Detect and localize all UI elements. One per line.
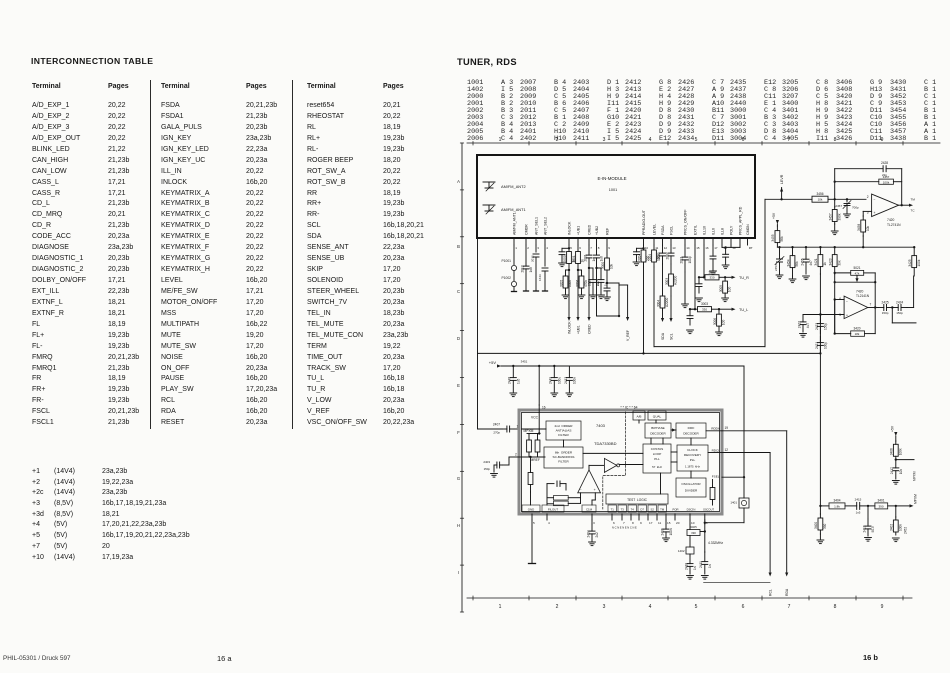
svg-text:6: 6 xyxy=(742,137,745,143)
svg-text:8: 8 xyxy=(834,604,837,610)
svg-text:+5V: +5V xyxy=(489,360,497,365)
svg-text:LOOP: LOOP xyxy=(653,452,662,456)
svg-text:5: 5 xyxy=(695,604,698,610)
svg-text:4: 4 xyxy=(649,137,652,143)
svg-text:3455: 3455 xyxy=(771,234,775,241)
capacitor C2448 xyxy=(512,365,514,367)
svg-text:3004: 3004 xyxy=(656,300,660,307)
svg-text:17: 17 xyxy=(649,521,653,525)
svg-text:3003: 3003 xyxy=(701,302,708,306)
resistor R2000 on INLOCK xyxy=(562,247,569,249)
svg-text:1401: 1401 xyxy=(730,501,737,505)
svg-text:2424: 2424 xyxy=(896,300,903,304)
svg-text:H: H xyxy=(457,523,460,528)
svg-text:9: 9 xyxy=(881,604,884,610)
wire ILL10 pin16 to TU_R row xyxy=(703,245,705,277)
svg-text:GND: GND xyxy=(528,507,534,511)
wire feedback lower xyxy=(835,281,876,283)
resistor R2013 xyxy=(535,245,537,252)
svg-text:INLOCK: INLOCK xyxy=(568,321,572,334)
svg-text:AM/FM_ANT1: AM/FM_ANT1 xyxy=(501,207,526,212)
svg-text:3402: 3402 xyxy=(890,524,894,531)
svg-text:2416: 2416 xyxy=(862,525,866,532)
svg-text:1: 1 xyxy=(517,425,519,429)
svg-text:390: 390 xyxy=(878,504,883,508)
svg-text:MPXM: MPXM xyxy=(913,471,917,481)
svg-text:DECODER: DECODER xyxy=(650,432,666,436)
trimmer capacitor C2454 xyxy=(778,246,780,248)
svg-text:LEVEL: LEVEL xyxy=(652,224,656,235)
svg-text:MREF: MREF xyxy=(531,458,540,462)
svg-text:SC-BANDPASS: SC-BANDPASS xyxy=(553,455,575,459)
svg-text:19: 19 xyxy=(732,246,736,250)
capacitor C2424 150p xyxy=(892,307,898,309)
resistor R3420 18k feedback xyxy=(834,300,836,334)
svg-text:3003: 3003 xyxy=(665,278,669,285)
capacitor C2005b on FSDA xyxy=(662,245,664,253)
capacitor C2011 xyxy=(684,245,686,257)
node pin5 xyxy=(568,247,570,249)
resistor R3004 in SDA line xyxy=(662,264,664,294)
svg-text:ILL10: ILL10 xyxy=(702,226,706,235)
svg-text:150p: 150p xyxy=(823,323,827,330)
svg-text:700p: 700p xyxy=(852,205,859,209)
svg-text:EXTIL: EXTIL xyxy=(693,225,697,235)
svg-text:3000: 3000 xyxy=(601,262,605,269)
svg-text:9: 9 xyxy=(640,521,642,525)
svg-text:9: 9 xyxy=(608,246,610,250)
svg-text:3425: 3425 xyxy=(908,259,912,266)
svg-text:6: 6 xyxy=(742,604,745,610)
svg-text:3206: 3206 xyxy=(575,280,579,287)
svg-text:OSCILLATOR: OSCILLATOR xyxy=(681,482,701,486)
svg-text:2449: 2449 xyxy=(549,377,553,384)
svg-text:G: G xyxy=(457,476,460,481)
svg-text:2448: 2448 xyxy=(508,377,512,384)
svg-text:2007: 2007 xyxy=(665,252,669,259)
svg-text:−: − xyxy=(580,488,582,492)
svg-text:LEVR: LEVR xyxy=(780,174,784,184)
test point P1002 xyxy=(513,271,515,281)
svg-text:T1: T1 xyxy=(611,507,615,511)
svg-text:TL2741N: TL2741N xyxy=(887,223,901,227)
svg-text:5: 5 xyxy=(533,521,535,525)
svg-text:4: 4 xyxy=(546,246,548,250)
svg-text:CLOCK: CLOCK xyxy=(687,448,699,452)
svg-text:8: 8 xyxy=(632,521,634,525)
svg-text:16: 16 xyxy=(542,406,546,410)
wire ground rail xyxy=(704,581,771,583)
svg-text:3454: 3454 xyxy=(786,259,790,266)
capacitor C2002 xyxy=(544,245,546,266)
block diff decoder xyxy=(676,423,706,438)
svg-text:15: 15 xyxy=(696,246,700,250)
svg-text:7: 7 xyxy=(590,246,592,250)
svg-text:FILTER: FILTER xyxy=(558,460,569,464)
GND pin wire xyxy=(531,520,533,563)
svg-text:1u8: 1u8 xyxy=(600,256,604,262)
svg-text:390: 390 xyxy=(823,523,827,529)
svg-text:TC: TC xyxy=(911,209,916,213)
svg-text:7420: 7420 xyxy=(887,218,895,222)
svg-text:I: I xyxy=(458,570,459,575)
svg-text:1: 1 xyxy=(515,246,517,250)
svg-text:150p: 150p xyxy=(484,467,491,471)
IC U7403 TDA7330BD body xyxy=(519,410,722,514)
resistor R3421 in MPX feed xyxy=(819,246,821,248)
block biphase decoder xyxy=(645,423,671,438)
wire bandpass to costas xyxy=(583,452,643,454)
svg-text:150p: 150p xyxy=(882,311,889,315)
capacitor C2415 series xyxy=(856,502,858,509)
svg-text:3457: 3457 xyxy=(829,213,833,220)
resistor R3406 100k xyxy=(895,441,897,444)
svg-text:7: 7 xyxy=(623,521,625,525)
svg-text:14: 14 xyxy=(686,246,690,250)
svg-text:FSCL: FSCL xyxy=(669,226,673,235)
svg-text:DIVIDER: DIVIDER xyxy=(685,489,698,493)
svg-text:MPXM: MPXM xyxy=(914,494,918,504)
block clock recovery PLL xyxy=(677,445,708,471)
svg-text:3001: 3001 xyxy=(572,255,576,262)
resistor R3205 xyxy=(565,270,567,276)
svg-text:3002: 3002 xyxy=(708,270,715,274)
svg-text:1u5: 1u5 xyxy=(516,378,520,384)
svg-text:AM/FM_ANT2: AM/FM_ANT2 xyxy=(501,184,526,189)
svg-text:POR: POR xyxy=(672,507,678,511)
svg-text:POLY: POLY xyxy=(729,225,733,235)
svg-text:RDA: RDA xyxy=(785,588,789,596)
resistor R2204 on LEVEL xyxy=(653,245,655,250)
svg-text:RECOVERY: RECOVERY xyxy=(684,453,701,457)
resistor R3457 390k to gnd xyxy=(834,199,836,207)
svg-text:1n5: 1n5 xyxy=(856,510,861,514)
svg-text:3006: 3006 xyxy=(713,318,717,325)
svg-text:2011: 2011 xyxy=(679,256,683,263)
resistor R3423 39k xyxy=(834,246,836,248)
svg-text:−: − xyxy=(846,300,848,304)
svg-text:3423: 3423 xyxy=(829,258,833,265)
svg-text:2005: 2005 xyxy=(657,252,661,259)
resistor R3454 xyxy=(791,246,793,248)
svg-text:ANT_SEL1: ANT_SEL1 xyxy=(534,217,538,235)
resistor R3005 load xyxy=(724,276,726,278)
capacitor C2455 xyxy=(805,246,807,248)
svg-text:3457: 3457 xyxy=(883,175,890,179)
svg-text:390: 390 xyxy=(691,531,696,535)
svg-text:3: 3 xyxy=(603,137,606,143)
svg-text:11: 11 xyxy=(655,246,658,250)
schematic border ruler top xyxy=(467,142,940,144)
potentiometer R5021 47k xyxy=(835,272,851,274)
svg-text:100k: 100k xyxy=(883,180,890,184)
svg-text:7420: 7420 xyxy=(856,289,864,293)
svg-text:TU_L: TU_L xyxy=(739,308,748,312)
svg-text:1.8k: 1.8k xyxy=(834,504,840,508)
svg-text:56k: 56k xyxy=(780,236,784,242)
resistor R3404 1.8k xyxy=(829,503,845,509)
schematic border ruler left xyxy=(461,143,463,612)
svg-text:SDA: SDA xyxy=(661,332,665,340)
svg-text:100k: 100k xyxy=(898,448,902,455)
comparator inside IC xyxy=(578,470,601,493)
antenna AM/FM_ANT1 xyxy=(483,204,495,206)
svg-text:100k: 100k xyxy=(917,259,921,266)
wire RDDA to bottom arrow xyxy=(722,430,787,432)
svg-text:2413: 2413 xyxy=(564,377,568,384)
svg-text:17: 17 xyxy=(714,246,718,250)
resistor R3402 with C2452 label xyxy=(895,506,897,517)
svg-text:TM: TM xyxy=(911,198,916,202)
block oscillator divider xyxy=(676,478,706,497)
block costas loop PLL xyxy=(643,444,671,473)
svg-text:REF: REF xyxy=(605,227,609,235)
svg-text:2454: 2454 xyxy=(774,264,778,271)
svg-text:BIPHASE: BIPHASE xyxy=(651,426,664,430)
svg-text:A: A xyxy=(457,179,460,184)
svg-text:1: 1 xyxy=(499,137,502,143)
resistor R3006 load xyxy=(718,308,720,310)
svg-text:10k: 10k xyxy=(866,225,870,231)
capacitor C2407 270p coupling xyxy=(503,428,507,430)
svg-text:7403: 7403 xyxy=(596,423,606,428)
svg-text:2012: 2012 xyxy=(531,255,535,262)
svg-text:20: 20 xyxy=(676,521,680,525)
wire pin8 to V_REF node xyxy=(596,268,598,316)
wire RDCL to bottom arrow xyxy=(722,452,770,454)
capacitor C2410 xyxy=(689,554,691,556)
capacitor C2008 on TU_L xyxy=(694,308,696,310)
wire LEVEL to opamp xyxy=(765,198,812,200)
resistor R3000 tall on REF xyxy=(606,245,608,258)
svg-text:7: 7 xyxy=(788,137,791,143)
svg-text:6: 6 xyxy=(613,521,615,525)
wire LEVEL routing down right and up to LEVR xyxy=(653,267,655,347)
wire MPXM row H xyxy=(819,505,821,507)
svg-text:2: 2 xyxy=(527,246,529,250)
capacitor C2013 on ILL8 xyxy=(712,245,714,256)
svg-text:DIFF: DIFF xyxy=(688,426,695,430)
capacitor C2004 xyxy=(600,268,602,280)
svg-text:100n: 100n xyxy=(572,377,576,384)
svg-text:INLOCK: INLOCK xyxy=(567,221,571,235)
svg-text:2452: 2452 xyxy=(904,527,908,534)
capacitor C2411 xyxy=(704,552,706,562)
wire MPX vertical feed xyxy=(819,274,821,506)
svg-text:100: 100 xyxy=(728,287,732,293)
svg-text:ANTIALIAS: ANTIALIAS xyxy=(556,429,572,433)
wire V_REF with arrow xyxy=(627,285,629,317)
wire +5V to VCC pin 16 xyxy=(538,365,540,367)
svg-text:2407: 2407 xyxy=(493,423,500,427)
capacitor C2012 xyxy=(525,245,527,266)
svg-text:39k: 39k xyxy=(837,260,841,266)
svg-text:13: 13 xyxy=(672,246,676,250)
svg-text:QUAL: QUAL xyxy=(653,414,662,418)
capacitor C2423 150p xyxy=(819,313,821,315)
feedback resistor R3457f 100k xyxy=(835,181,879,183)
crystal X1402 4.332MHz xyxy=(689,520,691,524)
svg-text:2455: 2455 xyxy=(800,258,804,265)
svg-text:T3: T3 xyxy=(621,507,625,511)
capacitor C2417 10n xyxy=(895,460,897,468)
svg-text:4: 4 xyxy=(649,604,652,610)
svg-text:C: C xyxy=(457,289,460,294)
wire pin5 with capacitor C2427 xyxy=(803,314,844,316)
svg-text:2406: 2406 xyxy=(660,528,664,535)
svg-text:2411: 2411 xyxy=(699,561,703,568)
svg-text:RT: RT xyxy=(749,246,753,250)
block 8th order SC-bandpass filter xyxy=(544,447,583,468)
svg-text:4u7: 4u7 xyxy=(806,323,810,329)
jumper 1401 xyxy=(739,498,749,508)
svg-text:100k: 100k xyxy=(898,524,902,531)
component reference grid xyxy=(0,0,950,1)
svg-text:ILL6: ILL6 xyxy=(711,228,715,235)
resistor R3401 390 xyxy=(868,505,875,507)
svg-text:3: 3 xyxy=(593,521,595,525)
antenna AM/FM_ANT2 xyxy=(483,181,495,183)
svg-text:2u2: 2u2 xyxy=(595,532,599,538)
wire step to right xyxy=(891,308,893,323)
svg-text:FSEL: FSEL xyxy=(712,475,720,479)
svg-text:10k: 10k xyxy=(610,263,614,269)
svg-text:100n: 100n xyxy=(669,528,673,535)
svg-text:100u: 100u xyxy=(557,377,561,384)
IC internal dashed partition xyxy=(603,412,626,509)
svg-text:3: 3 xyxy=(603,604,606,610)
wire pin6 xyxy=(835,299,844,301)
svg-text:D: D xyxy=(457,336,460,341)
svg-text:3420: 3420 xyxy=(853,326,860,330)
svg-text:330: 330 xyxy=(709,276,714,280)
capacitor C2413 xyxy=(568,366,570,378)
svg-text:TU_R: TU_R xyxy=(739,276,749,280)
svg-text:100p: 100p xyxy=(823,342,827,349)
svg-text:ILL8: ILL8 xyxy=(720,228,724,235)
svg-text:3400: 3400 xyxy=(814,522,818,529)
svg-text:PRCS_APPL_RD: PRCS_APPL_RD xyxy=(738,206,742,235)
feedback capacitor C2428 22p xyxy=(834,169,836,200)
module pins with numbers and net labels xyxy=(513,238,515,245)
wire SCL arrow xyxy=(670,296,672,318)
svg-text:2428: 2428 xyxy=(881,161,888,165)
svg-text:2: 2 xyxy=(515,453,517,457)
svg-text:4: 4 xyxy=(548,521,550,525)
svg-text:4n7: 4n7 xyxy=(809,260,813,266)
svg-text:2012: 2012 xyxy=(520,265,524,272)
resistor R3206 xyxy=(581,270,583,276)
IC bottom pins xyxy=(531,514,533,520)
wire INLOCK with arrow xyxy=(568,270,570,317)
resistor R3425 100k xyxy=(913,246,915,248)
svg-text:CRED: CRED xyxy=(588,324,592,334)
svg-text:1n: 1n xyxy=(693,566,697,570)
capacitor C2001 on CRED xyxy=(588,245,590,255)
svg-text:8: 8 xyxy=(834,137,837,143)
svg-text:5: 5 xyxy=(695,137,698,143)
pin boxes GND FILOUT C1M xyxy=(522,505,540,512)
capacitor C2010 xyxy=(722,246,740,248)
svg-text:F: F xyxy=(457,430,460,435)
svg-text:+UB1: +UB1 xyxy=(577,325,581,334)
schematic border ruler bottom xyxy=(467,597,912,599)
svg-text:+: + xyxy=(846,313,848,317)
svg-text:ANT_SEL2: ANT_SEL2 xyxy=(543,217,547,235)
svg-text:18k: 18k xyxy=(855,332,860,336)
svg-text:57 kHz: 57 kHz xyxy=(652,465,662,469)
svg-text:TL2141N: TL2141N xyxy=(856,294,870,298)
svg-text:2425: 2425 xyxy=(882,300,889,304)
svg-text:P1002: P1002 xyxy=(501,276,511,280)
svg-text:16: 16 xyxy=(705,246,709,250)
page left half : interconnection table xyxy=(31,56,153,66)
svg-text:COSTAS: COSTAS xyxy=(651,447,664,451)
op-amp U7420b TL2141N xyxy=(844,296,868,319)
svg-text:390k: 390k xyxy=(837,213,841,220)
wire MPXM arrow xyxy=(910,504,914,507)
svg-text:2417: 2417 xyxy=(890,467,894,474)
inverter inside IC xyxy=(604,458,616,472)
test point P1001 xyxy=(513,245,515,265)
wire MPX to demodulator input xyxy=(477,353,479,429)
resistor R3002 330 xyxy=(699,276,705,278)
svg-text:100p: 100p xyxy=(688,256,692,263)
svg-text:P1001: P1001 xyxy=(501,259,511,263)
test pin boxes xyxy=(608,505,616,512)
svg-text:B: B xyxy=(457,244,460,249)
resistor R3204 on PPRADIO-OUT xyxy=(637,247,644,249)
capacitor C2406 xyxy=(665,520,667,524)
FILOUT compensation network xyxy=(546,484,548,505)
svg-text:5: 5 xyxy=(839,313,841,317)
svg-text:N C N E N E N C N E: N C N E N E N C N E xyxy=(612,526,637,530)
capacitor C2421 100p xyxy=(819,336,821,343)
svg-text:15: 15 xyxy=(667,521,671,525)
svg-text:+5V: +5V xyxy=(891,425,895,432)
IC pin 16 VCC top xyxy=(538,405,540,413)
resistor R7403c internal to gnd xyxy=(529,456,531,458)
wire SDA arrow xyxy=(662,310,664,318)
svg-text:8: 8 xyxy=(598,246,600,250)
wire op-amp2 output node xyxy=(868,307,878,309)
resistor R3003b 330 xyxy=(690,308,698,310)
resistor R7403b internal xyxy=(537,434,539,440)
svg-text:CMDR: CMDR xyxy=(524,224,528,235)
svg-text:T4: T4 xyxy=(631,507,635,511)
svg-text:1.1875 kHz: 1.1875 kHz xyxy=(685,465,701,469)
svg-text:1: 1 xyxy=(499,604,502,610)
svg-text:2204: 2204 xyxy=(648,254,652,261)
svg-text:2410: 2410 xyxy=(684,563,688,570)
svg-text:2427: 2427 xyxy=(797,321,801,328)
svg-text:270p: 270p xyxy=(493,431,500,435)
svg-text:56k: 56k xyxy=(795,261,799,267)
svg-text:FILTER: FILTER xyxy=(558,433,569,437)
svg-text:19: 19 xyxy=(725,426,729,430)
svg-text:TEST LOGIC: TEST LOGIC xyxy=(627,498,648,502)
svg-text:SCL: SCL xyxy=(670,333,674,340)
svg-text:2000: 2000 xyxy=(563,255,567,262)
svg-text:8th ORDER: 8th ORDER xyxy=(555,451,573,455)
svg-text:2423: 2423 xyxy=(815,323,819,330)
svg-text:3401: 3401 xyxy=(877,498,884,502)
capacitor C2006 xyxy=(606,283,608,288)
svg-text:+UB1: +UB1 xyxy=(576,226,580,235)
svg-text:330: 330 xyxy=(702,308,707,312)
svg-text:7: 7 xyxy=(870,302,872,306)
block test logic xyxy=(606,494,668,504)
